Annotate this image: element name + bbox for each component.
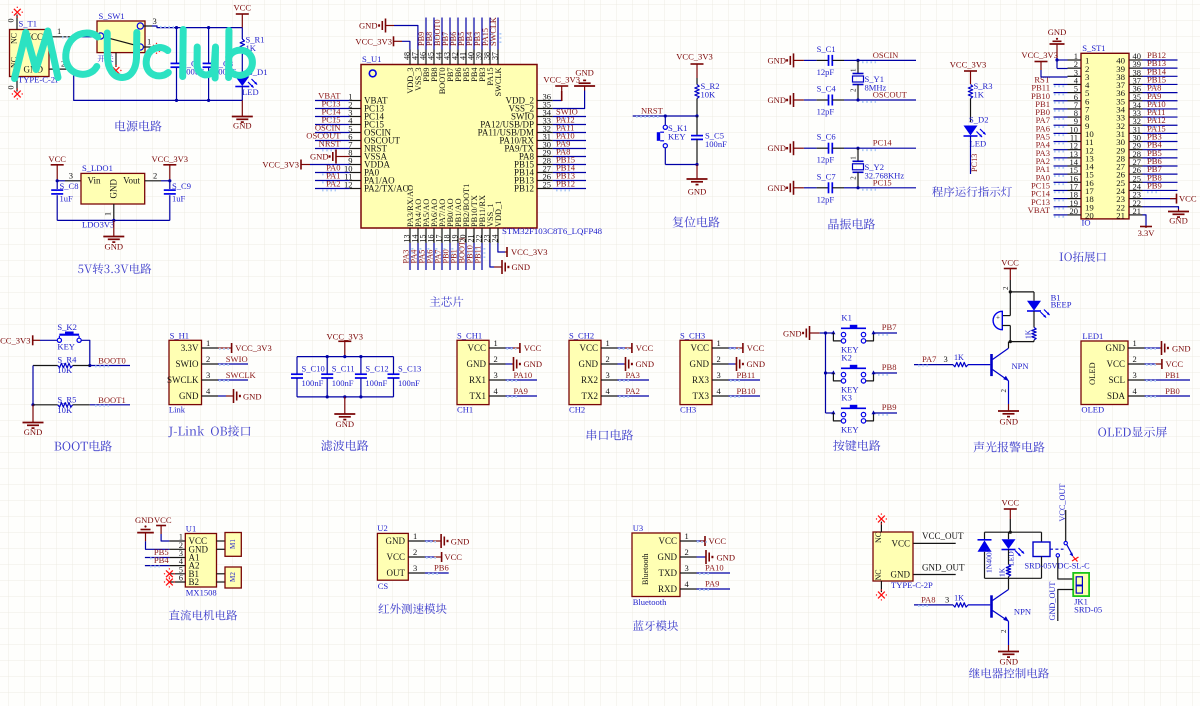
svg-text:VCC_3V3: VCC_3V3 [511,247,548,257]
S_ST1 pin 5 stub [1068,84,1091,99]
S_ST1 pin 31 stub [1116,124,1142,139]
svg-text:2: 2 [606,354,610,364]
MCU pin 37 SWCLK (top) [491,50,504,97]
svg-text:NRST: NRST [319,139,342,149]
boot left bus [31,366,34,407]
MCU pin 25 PB12 [514,180,553,194]
net label PB10 wire (S_CH3 pin 4) [729,386,761,397]
S_ST1 pin 26 stub [1116,165,1142,180]
MCU pin 33 PA12/USB/DP [480,116,553,130]
svg-text:VCC: VCC [658,536,677,546]
svg-text:10K: 10K [701,90,717,100]
LED1 pin 2 VCC [1106,354,1144,369]
svg-text:CH3: CH3 [680,405,696,415]
MCU S_U1 STM32F103C8T6_LQFP48 body [361,54,603,236]
svg-text:SWIO: SWIO [226,354,248,364]
S_ST1 pin 2 stub [1068,59,1090,74]
net label PB4 wire (MCU top) [465,18,476,50]
keys ground bus [824,331,827,413]
GND power port below LDO [103,220,124,251]
svg-text:GND: GND [467,359,487,369]
svg-text:GND: GND [767,143,786,153]
svg-text:VCC_3V3: VCC_3V3 [327,332,364,342]
svg-text:S_C8: S_C8 [60,181,79,191]
svg-text:2: 2 [1002,286,1010,290]
no-connect X on U1 B2 [166,579,173,586]
svg-text:10K: 10K [57,405,73,415]
capacitor S_C11 100nF [321,357,354,397]
MCU pin 30 PA9/TX [504,140,552,154]
IO header S_ST1 body [1081,43,1129,228]
svg-text:GND: GND [1172,344,1191,354]
net label BOOT1 wire (MCU bottom) [457,237,468,270]
net label PA4 wire (MCU bottom) [409,243,420,270]
svg-text:S_C10: S_C10 [302,364,325,374]
relay bottom rail [985,577,1042,579]
alarm emitter to GND [998,381,1019,427]
net label PA9 wire (S_CH1 pin 4) [506,386,538,397]
svg-text:37: 37 [491,52,500,60]
switch comment text kai-guan [98,62,100,64]
title: OLED display [1098,427,1167,438]
net label PB0 wire (LED1 pin 4) [1145,386,1191,397]
svg-text:PC15: PC15 [873,177,892,187]
U1 pin 4 A2 [169,556,199,571]
VCC_3V3 bar for MCU pin 36 VDD_2 [543,75,580,102]
MCU pin 6 OSCOUT [348,132,400,146]
net label PA7 wire with base resistor 1K [914,353,990,367]
svg-text:KEY: KEY [57,342,75,352]
no-connect X on U1 B1 [166,570,173,577]
S_ST1 pin 39 stub [1116,59,1142,74]
svg-text:NRST: NRST [641,106,664,116]
net label PB1 wire (S_ST1 pin 7) [1035,99,1067,111]
net label PA0 wire (S_ST1 pin 16) [1036,172,1068,184]
svg-text:S_C7: S_C7 [817,171,837,181]
net label OSCIN wire (MCU left pin 5) [315,123,350,135]
S_H1 pin 3 SWCLK [167,370,218,385]
MCU pin 26 PB13 [514,172,553,186]
svg-text:3: 3 [413,563,417,573]
svg-text:1K: 1K [998,567,1007,577]
svg-text:10K: 10K [57,365,73,375]
svg-text:PB12: PB12 [556,179,575,189]
VCC power port (alarm) [1001,258,1019,281]
MCU pin 8 VSSA [348,148,387,162]
net label PB15 wire (S_ST1 pin 37) [1143,74,1178,86]
relay top rail [985,519,1042,534]
VCC bar on S_CH3 pin 1 [729,343,765,353]
svg-text:GND: GND [179,391,199,401]
svg-text:NC: NC [874,569,883,580]
MCU pin 11 PA1/AO [344,172,395,186]
svg-text:RX3: RX3 [692,375,710,385]
U3 pin 1 VCC [658,531,696,546]
relay output connector TYPE-C-2P body [873,522,933,593]
svg-text:GND: GND [575,68,594,78]
buzzer LED branch with B1 BEEP label [1027,292,1072,318]
title: serial port circuit [587,429,633,440]
svg-text:100nF: 100nF [332,378,354,388]
S_ST1 pin 25 stub [1116,173,1142,188]
net label PB12 wire (S_ST1 pin 40) [1143,50,1178,62]
svg-text:U2: U2 [377,523,387,533]
svg-text:CH2: CH2 [569,405,585,415]
net label RST wire (S_ST1 pin 4) [1034,74,1067,86]
S_ST1 pin 29 stub [1116,141,1142,156]
net label PA9 wire (U3 pin 4) [697,579,731,590]
title: power circuit [115,120,161,131]
svg-text:PA2: PA2 [626,386,640,396]
S_ST1 pin 6 stub [1068,92,1091,107]
svg-text:VCC: VCC [891,539,910,549]
svg-text:2: 2 [413,547,417,557]
no-connect X relay connector top [878,516,885,523]
GND flag for MCU pin 23 VSS_1 [490,243,530,274]
svg-text:PA7: PA7 [922,354,937,364]
wire GND to U1 pin 2 [146,541,170,549]
GND power port (boot) [23,405,44,437]
S_ST1 pin 13 stub [1068,149,1095,164]
title: IR speed module [379,603,447,614]
svg-text:LED1: LED1 [1082,331,1103,341]
net label PA12 wire (S_ST1 pin 32) [1143,115,1178,127]
VCC power port (LDO input) [48,154,66,181]
relay indicator LED with 1K resistor [998,532,1025,578]
VCC bar on S_CH1 pin 1 [506,343,542,353]
svg-text:25: 25 [543,180,552,190]
MCU pin 36 VDD_2 [506,92,553,106]
svg-text:PB10: PB10 [737,386,756,396]
svg-text:SWCLK: SWCLK [226,370,257,380]
svg-text:6: 6 [179,573,183,583]
U2 pin 1 GND [386,531,425,546]
VCC_3V3 power port (filter) [327,332,364,357]
bluetooth module U3 body [632,523,680,607]
svg-text:Link: Link [169,405,186,415]
VCC_3V3 bar on MCU pin 9 VDDA [262,160,349,170]
svg-text:KEY: KEY [841,425,859,435]
MCU pin 16 PA6/AO (bottom) [427,199,440,243]
svg-text:NPN: NPN [1012,361,1029,371]
relay actuation dashed link [1050,548,1064,550]
VCC bar on U2 pin 2 [425,552,462,562]
wire VCC to LDO Vin pin3 [57,171,81,181]
net label PA15 wire (S_ST1 pin 31) [1143,123,1178,135]
svg-text:2: 2 [1133,354,1137,364]
svg-text:S_T1: S_T1 [19,19,38,29]
svg-text:Bluetooth: Bluetooth [633,597,667,607]
svg-text:12pF: 12pF [817,67,835,77]
S_ST1 pin 40 stub [1116,51,1142,66]
VCC bar on S_CH2 pin 1 [618,343,654,353]
svg-text:1: 1 [606,338,610,348]
svg-text:VCC: VCC [1166,359,1184,369]
VCC_3V3 power port (boot) [0,335,57,345]
net label PB8 wire (MCU top) [425,18,436,50]
svg-text:RXD: RXD [658,584,678,594]
VCC bar on U3 pin 1 [697,536,727,546]
wire contact to JK1 pin 1 [1058,557,1073,579]
svg-text:CH1: CH1 [457,405,473,415]
svg-text:PB6: PB6 [434,563,449,573]
GND power port (filter) [334,397,355,429]
svg-text:S_C13: S_C13 [398,364,421,374]
svg-text:2: 2 [850,88,858,92]
svg-text:GND: GND [512,262,531,272]
svg-text:GND: GND [1048,27,1067,37]
net label PA7 wire (MCU bottom) [433,243,444,270]
svg-text:3: 3 [206,370,210,380]
terminal JK1 SRD-05 [1073,573,1102,615]
net label NRST wire [633,106,697,117]
svg-text:GND: GND [451,537,470,547]
net label PC13 (run LED, rotated) [970,136,979,174]
svg-text:VCC: VCC [154,515,172,525]
S_ST1 pin 30 stub [1116,133,1142,148]
U2 pin 2 VCC [386,547,424,562]
svg-text:2: 2 [717,354,721,364]
resistor S_R2 10K [695,78,720,116]
svg-text:GND: GND [109,179,119,199]
svg-text:TX1: TX1 [470,391,487,401]
bottom rail junction dots [175,99,210,102]
svg-text:S_C1: S_C1 [817,44,836,54]
relay coil [1033,532,1050,578]
MCU pin 18 PB0/AO (bottom) [443,198,456,243]
S_ST1 pin 3 stub [1068,67,1091,82]
svg-text:OSCIN: OSCIN [873,50,899,60]
svg-text:CS: CS [378,581,389,591]
wire LDO Vout pin2 to VCC_3V3 [145,171,170,181]
svg-text:NC: NC [10,33,19,44]
title: reset circuit [673,216,720,227]
net label PB5 wire (MCU top) [457,18,468,50]
MCU pin 5 OSCIN [348,124,391,138]
svg-text:TYPE-C-2P: TYPE-C-2P [18,75,60,85]
VCC power port above rail [234,3,252,28]
svg-text:S_C6: S_C6 [817,132,837,142]
svg-text:VCC: VCC [690,343,709,353]
crystal S_Y1 8MHz [850,60,887,100]
svg-text:1K: 1K [1024,329,1033,339]
S_CH2 pin 4 TX2 [582,386,618,401]
svg-text:LED: LED [242,87,259,97]
MCU pin 19 PB1/AO (bottom) [451,198,464,243]
LED1 pin 4 SDA [1107,386,1145,401]
S_ST1 pin 28 stub [1116,149,1142,164]
title: main chip [430,296,464,307]
flyback diode 1N4007 [978,532,994,578]
U3 pin 2 GND [658,547,697,562]
title: 5V to 3.3V circuit [78,263,151,274]
net label PA2 wire (S_ST1 pin 14) [1036,156,1068,168]
GND power port (reset) [687,165,708,197]
net label PA5 wire (S_ST1 pin 11) [1036,132,1068,144]
svg-text:0: 0 [7,86,16,90]
svg-text:PA10: PA10 [705,563,724,573]
svg-text:24: 24 [491,235,500,243]
svg-text:MX1508: MX1508 [186,588,217,598]
motor connector M2 [217,567,242,588]
svg-text:KEY: KEY [668,132,686,142]
net label PA1 wire (S_ST1 pin 15) [1036,164,1068,176]
MCU pin 41 PB5 (top) [459,50,472,82]
svg-text:S_R5: S_R5 [57,394,76,404]
svg-text:2: 2 [685,547,689,557]
MCU pin 21 PB10/TX (bottom) [467,195,480,243]
MCU pin 22 PB11/RX (bottom) [475,195,488,243]
svg-text:3: 3 [153,16,157,26]
junction dot OSCIN [856,59,859,62]
net label PA9 wire (MCU right pin 30) [553,139,586,151]
svg-text:PB12: PB12 [514,184,534,194]
svg-text:NPN: NPN [1014,607,1031,617]
S_H1 pin 1 3.3V [181,338,218,353]
svg-text:OLED: OLED [1081,405,1104,415]
svg-text:1: 1 [413,531,417,541]
GND port on S_ST1 pin 22 [1143,207,1190,226]
S_CH1 pin 2 GND [467,354,506,369]
svg-text:VCC: VCC [747,343,765,353]
svg-text:S_R4: S_R4 [57,355,77,365]
S_CH2 pin 1 VCC [579,338,617,353]
svg-text:+: + [996,314,1000,322]
U1 pin 3 A1 [169,548,199,563]
S_ST1 pin 11 stub [1068,133,1094,148]
svg-text:3: 3 [1133,370,1137,380]
serial header S_CH3 body [680,331,712,415]
GND flag on U2 pin 1 [425,534,469,548]
wire S_T1 GND pin2 down to bottom rail [49,59,242,101]
svg-text:M2: M2 [229,572,237,582]
svg-text:K3: K3 [841,393,851,403]
svg-text:GND: GND [105,242,124,252]
svg-text:20: 20 [1085,211,1094,221]
svg-text:VCC_OUT: VCC_OUT [922,531,964,541]
net label PB15 wire (MCU right pin 28) [553,155,586,167]
J-Link header S_H1 body [169,331,202,415]
net label NRST wire (MCU left pin 7) [315,139,350,151]
svg-text:PB11: PB11 [473,245,482,263]
resistor 1K under alarm LED [1024,311,1037,342]
VCC_3V3 power port (LDO output) [152,154,189,181]
svg-text:1: 1 [494,338,498,348]
svg-text:VCC_3V3: VCC_3V3 [235,343,272,353]
GND flag on S_CH2 pin 2 [618,357,655,371]
resistor S_R3 1K [968,81,992,122]
svg-text:PB9: PB9 [1147,180,1162,190]
NPN transistor (alarm) [992,342,1029,381]
VCC power port (relay) [1002,498,1020,520]
net label PB1 wire (MCU bottom) [449,243,460,270]
buzzer B1 symbol [993,286,1010,342]
net label SWIO wire (S_H1 pin 2) [218,354,248,365]
net label PB6 wire (MCU top) [449,18,460,50]
svg-text:VCC_OUT: VCC_OUT [1058,484,1067,522]
alarm bottom rail [1009,340,1034,343]
svg-text:S_CH2: S_CH2 [569,331,594,341]
svg-text:GND: GND [767,55,786,65]
S_H1 pin 4 GND [179,386,218,401]
junction dot LDO input [56,179,59,182]
S_CH3 pin 3 RX3 [692,370,729,385]
svg-text:GND: GND [658,552,678,562]
net label PB3 wire (MCU top) [473,18,484,50]
S_ST1 pin 34 stub [1116,100,1142,115]
net label BOOT0 wire [90,355,130,366]
svg-text:GND: GND [1000,657,1019,667]
S_ST1 pin 19 stub [1068,198,1095,213]
OLED header LED1 body [1081,331,1128,415]
net label PA10 wire (S_ST1 pin 34) [1143,99,1178,111]
VCC_3V3 power port to S_ST1 pin 3 [1021,50,1067,77]
svg-text:2: 2 [206,354,210,364]
relay SPDT contact [1056,541,1078,561]
S_ST1 pin 17 stub [1068,181,1095,196]
VCC bar on S_ST1 pin 23 [1143,194,1197,204]
VCC_3V3 power port (run LED) [950,60,987,85]
S_ST1 pin 10 stub [1068,124,1095,139]
svg-text:GND_OUT: GND_OUT [1048,582,1057,621]
capacitor S_C2 100uF [171,28,205,101]
S_ST1 pin 14 stub [1068,157,1095,172]
svg-text:100nF: 100nF [365,378,387,388]
net label PB9 wire (S_ST1 pin 24) [1143,180,1178,192]
svg-text:GND: GND [310,152,329,162]
MCU pin 38 PA15 (top) [483,50,496,86]
MCU pin 35 VSS_2 [508,100,552,114]
title: DC motor circuit [169,610,237,621]
svg-text:NC: NC [874,532,883,543]
svg-text:SCL: SCL [1108,375,1125,385]
svg-text:VCC: VCC [1002,498,1020,508]
wire S_K2 to BOOT0 node [81,340,91,367]
capacitor S_C8 1uF [51,181,78,221]
svg-text:PB1: PB1 [1165,370,1180,380]
svg-text:S_CH3: S_CH3 [680,331,705,341]
relay emitter to GND [998,621,1019,666]
VCC_3V3 bar on S_H1 pin 1 [218,343,272,353]
S_ST1 pin 21 stub [1116,206,1142,221]
svg-text:1: 1 [850,68,858,72]
MCU pin 9 VDDA [348,156,390,170]
VCC power port (motor) [154,515,172,534]
junction dots on VCC rail [175,26,210,29]
S_ST1 pin 33 stub [1116,108,1142,123]
svg-text:1uF: 1uF [172,194,186,204]
svg-text:GND: GND [1000,417,1019,427]
net label PA15 wire (MCU top) [481,18,492,50]
svg-text:GND: GND [1106,343,1126,353]
MCU pin 47 VSS_3 (top) [411,50,424,92]
resistor S_R1 1K [240,28,264,75]
svg-text:GND: GND [233,121,252,131]
svg-text:GND: GND [359,21,378,31]
MCU pin 4 PC15 [348,116,384,130]
MCU pin 1 VBAT [348,92,388,106]
push button K3 KEY -> PB9 [826,393,898,435]
svg-text:1: 1 [147,37,151,47]
net label PA3 wire (S_CH2 pin 3) [618,370,650,381]
net label SWCLK wire (MCU top) [489,17,500,49]
net label PB14 wire (MCU right pin 27) [553,163,586,175]
svg-text:1: 1 [717,338,721,348]
junction dot LDO output [168,179,171,182]
S_ST1 pin 18 stub [1068,190,1095,205]
LDO GND pin1 stub [104,204,114,220]
svg-text:1K: 1K [954,593,964,602]
